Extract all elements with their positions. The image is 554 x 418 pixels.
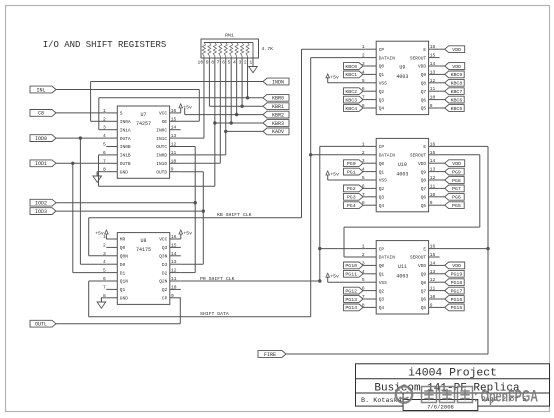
- wire KBR3 row to U7 IN1B: [99, 58, 264, 186]
- svg-text:16: 16: [430, 141, 436, 147]
- net label IOD2: [30, 199, 56, 206]
- svg-text:E: E: [423, 144, 426, 150]
- svg-text:Q1N: Q1N: [120, 279, 128, 285]
- svg-text:IOD3: IOD3: [35, 209, 47, 215]
- svg-text:E: E: [423, 246, 426, 252]
- svg-text:PG8: PG8: [452, 178, 461, 184]
- svg-text:PG1: PG1: [347, 169, 356, 175]
- net label PG14: [344, 304, 366, 311]
- svg-text:PG13: PG13: [345, 297, 357, 303]
- svg-text:14: 14: [171, 251, 177, 257]
- svg-text:KBC4: KBC4: [345, 106, 357, 112]
- svg-text:14: 14: [171, 125, 177, 131]
- svg-text:VDD: VDD: [452, 263, 461, 269]
- title block: [356, 364, 550, 411]
- +5V at U7 VCC: [179, 104, 192, 113]
- svg-text:Q0N: Q0N: [120, 254, 128, 260]
- svg-text:D3: D3: [162, 262, 168, 268]
- svg-text:Q4: Q4: [379, 305, 385, 311]
- svg-text:VDD: VDD: [452, 64, 461, 70]
- svg-text:IN1C: IN1C: [156, 136, 167, 142]
- net label KBC5: [440, 105, 465, 112]
- net label PG15: [440, 304, 465, 311]
- svg-text:OUTB: OUTB: [120, 161, 131, 167]
- svg-text:Q0: Q0: [379, 161, 385, 167]
- svg-text:12: 12: [430, 175, 436, 181]
- wire C8 to U7 S: [56, 112, 106, 114]
- svg-text:7: 7: [217, 60, 220, 66]
- svg-text:IN1A: IN1A: [120, 127, 131, 133]
- svg-text:IOD1: IOD1: [35, 161, 47, 167]
- svg-text:2: 2: [244, 60, 247, 66]
- wire KADV row to U7 IN0D: [181, 58, 263, 155]
- svg-text:4.7K: 4.7K: [262, 46, 274, 52]
- wire OUTL to U8 CP: [56, 298, 180, 324]
- wire KBR0 row: [99, 98, 263, 130]
- svg-text:9: 9: [430, 103, 433, 109]
- svg-text:11: 11: [430, 86, 436, 92]
- svg-text:KBC1: KBC1: [345, 72, 357, 78]
- net label KBC7: [440, 88, 465, 95]
- IC U10 4003 shift register: [362, 138, 440, 211]
- svg-text:15: 15: [171, 242, 177, 248]
- svg-text:DATAIN: DATAIN: [379, 153, 396, 159]
- svg-text:10: 10: [430, 192, 436, 198]
- wire KB SHIFT CLK net: [89, 49, 366, 256]
- IC U11 4003 shift register: [362, 241, 440, 314]
- svg-text:OE: OE: [162, 119, 168, 125]
- svg-text:OUTA: OUTA: [120, 136, 131, 142]
- net label PG11: [344, 270, 366, 277]
- svg-text:VSS: VSS: [379, 81, 387, 87]
- net label PG19: [440, 270, 465, 277]
- svg-text:VCC: VCC: [159, 111, 167, 117]
- svg-text:PG3: PG3: [347, 195, 356, 201]
- svg-text:DATAIN: DATAIN: [379, 55, 396, 61]
- wire U10 SEROUT to U11 DATAIN: [344, 155, 480, 257]
- svg-text:: OpenFPGA: : OpenFPGA: [474, 388, 538, 406]
- svg-text:Q7: Q7: [421, 186, 427, 192]
- svg-text:13: 13: [171, 259, 177, 265]
- svg-text:CP: CP: [379, 246, 385, 252]
- svg-text:OUTC: OUTC: [156, 144, 167, 150]
- svg-text:9: 9: [171, 293, 174, 299]
- svg-text:RN1: RN1: [225, 33, 234, 39]
- svg-text:IN1B: IN1B: [120, 153, 131, 159]
- net label IOD1: [30, 160, 56, 167]
- svg-text:Q3N: Q3N: [159, 254, 167, 260]
- svg-text:6: 6: [222, 60, 225, 66]
- svg-text:KBC3: KBC3: [345, 97, 357, 103]
- svg-text:5: 5: [228, 60, 231, 66]
- +5V at U10 VSS: [326, 171, 365, 180]
- svg-text:+5v: +5v: [330, 274, 339, 280]
- net label KBC3: [344, 96, 366, 103]
- svg-text:12: 12: [171, 268, 177, 274]
- net label PG7: [440, 185, 465, 192]
- svg-text:PG15: PG15: [451, 305, 463, 311]
- svg-text:13: 13: [171, 133, 177, 139]
- svg-text:U7: U7: [140, 112, 146, 118]
- svg-text:+5v: +5v: [95, 231, 104, 237]
- svg-text:7: 7: [103, 284, 106, 290]
- svg-text:PG12: PG12: [345, 288, 357, 294]
- IC U8 74175 quad flip-flop: [103, 233, 181, 305]
- net label PG12: [344, 287, 366, 294]
- svg-text:U11: U11: [398, 264, 407, 270]
- net label PG3: [344, 193, 366, 200]
- svg-text:16: 16: [430, 244, 436, 250]
- svg-text:4003: 4003: [396, 74, 408, 80]
- net label C8: [30, 110, 56, 117]
- text PR SHIFT CLK: [200, 276, 235, 282]
- svg-text:FIRE: FIRE: [264, 352, 276, 358]
- svg-text:GND: GND: [120, 296, 128, 302]
- svg-text:VDD: VDD: [452, 161, 461, 167]
- net label PG9: [440, 168, 465, 175]
- net label VDD at U9 VDD: [440, 63, 465, 70]
- svg-text:+5v: +5v: [330, 74, 339, 80]
- net label KBR0: [263, 94, 289, 101]
- wire RN1 pin7 to U7 IN1D: [181, 58, 221, 163]
- svg-text:KB SHIFT CLK: KB SHIFT CLK: [217, 212, 252, 218]
- net label KBC8: [440, 79, 465, 86]
- net label PG10: [344, 262, 366, 269]
- svg-text:KBC5: KBC5: [451, 106, 463, 112]
- ground at U8 GND pin: [97, 298, 106, 309]
- svg-text:Q4: Q4: [379, 203, 385, 209]
- svg-text:74257: 74257: [136, 121, 151, 127]
- svg-text:15: 15: [430, 53, 436, 59]
- svg-text:Q2: Q2: [162, 287, 168, 293]
- svg-text:VSS: VSS: [379, 178, 387, 184]
- svg-text:+5v: +5v: [183, 231, 192, 237]
- net label PG16: [440, 296, 465, 303]
- svg-text:U9: U9: [399, 65, 405, 71]
- svg-text:D1: D1: [120, 270, 126, 276]
- svg-text:KBC8: KBC8: [451, 81, 463, 87]
- svg-text:PG18: PG18: [451, 280, 463, 286]
- svg-text:Q3: Q3: [379, 297, 385, 303]
- svg-text:9: 9: [430, 302, 433, 308]
- wire KBR1 row: [209, 58, 263, 106]
- svg-text:S: S: [120, 111, 123, 117]
- svg-text:10: 10: [171, 284, 177, 290]
- net label PG6: [440, 193, 465, 200]
- svg-text:OUTD: OUTD: [156, 169, 167, 175]
- wire SHIFT DATA net: [89, 58, 366, 317]
- svg-text:KBC6: KBC6: [451, 97, 463, 103]
- svg-text:Q6: Q6: [421, 97, 427, 103]
- svg-text:Q8: Q8: [421, 81, 427, 87]
- svg-text:Q4: Q4: [379, 106, 385, 112]
- svg-text:IN0C: IN0C: [156, 127, 167, 133]
- svg-text:PG10: PG10: [345, 263, 357, 269]
- svg-text:9: 9: [171, 167, 174, 173]
- svg-text:I/O AND SHIFT REGISTERS: I/O AND SHIFT REGISTERS: [43, 39, 167, 50]
- svg-text:VSS: VSS: [379, 280, 387, 286]
- svg-text:11: 11: [171, 276, 177, 282]
- svg-text:KBC2: KBC2: [345, 89, 357, 95]
- svg-text:KBR1: KBR1: [272, 104, 284, 110]
- svg-text:VCC: VCC: [159, 237, 167, 243]
- svg-text:Q1: Q1: [379, 272, 385, 278]
- svg-text:VDD: VDD: [452, 47, 461, 53]
- svg-text:PG6: PG6: [452, 195, 461, 201]
- wire KBR2 row: [185, 108, 263, 115]
- ground at U7 GND pin: [93, 172, 106, 183]
- svg-text:MR: MR: [120, 237, 126, 243]
- svg-text:13: 13: [430, 69, 436, 75]
- svg-text:IN0D: IN0D: [156, 153, 167, 159]
- IC U9 4003 shift register: [362, 41, 440, 114]
- svg-text:4003: 4003: [396, 274, 408, 280]
- svg-text:16: 16: [171, 108, 177, 114]
- svg-text:9: 9: [206, 60, 209, 66]
- svg-text:74175: 74175: [136, 247, 151, 253]
- svg-text:GND: GND: [120, 169, 128, 175]
- svg-text:Q7: Q7: [421, 89, 427, 95]
- svg-text:IN1D: IN1D: [156, 161, 167, 167]
- svg-text:Q8: Q8: [421, 280, 427, 286]
- svg-text:Q0: Q0: [379, 263, 385, 269]
- svg-text:Q5: Q5: [421, 305, 427, 311]
- junction KBR3/RN1: [230, 58, 233, 125]
- svg-text:8: 8: [211, 60, 214, 66]
- net label KBC4: [344, 105, 366, 112]
- svg-text:PG2: PG2: [347, 186, 356, 192]
- text KB SHIFT CLK: [217, 212, 252, 218]
- svg-text:KBC9: KBC9: [451, 72, 463, 78]
- net label FIRE: [258, 351, 286, 358]
- net label VDD at U9 E: [440, 46, 465, 53]
- net label OUTL: [30, 320, 56, 327]
- net label KBC0: [344, 63, 366, 70]
- net label INL: [30, 86, 56, 93]
- wire IOD3 to U7 OUTD and U8 D3: [56, 172, 205, 265]
- svg-text:15: 15: [430, 150, 436, 156]
- net label KADV: [263, 128, 289, 135]
- watermark text: [422, 387, 473, 403]
- net label VDD at U11: [440, 262, 465, 269]
- svg-text:16: 16: [171, 234, 177, 240]
- svg-text:5: 5: [103, 142, 106, 148]
- svg-text:Q9: Q9: [421, 272, 427, 278]
- net label INDN: [263, 78, 289, 85]
- svg-text:Q9: Q9: [421, 72, 427, 78]
- wire IOD0 to U7 OUTA and U8 D1: [56, 136, 106, 264]
- svg-text:10: 10: [430, 294, 436, 300]
- wire INDN to U7 IN0A: [91, 82, 263, 122]
- svg-text:11: 11: [430, 183, 436, 189]
- svg-text:12: 12: [171, 142, 177, 148]
- net label PG18: [440, 279, 465, 286]
- svg-text:3: 3: [238, 60, 241, 66]
- svg-text:OUTL: OUTL: [35, 322, 47, 328]
- svg-text:11: 11: [171, 150, 177, 156]
- net label KBR2: [263, 111, 289, 118]
- svg-text:PG7: PG7: [452, 186, 461, 192]
- wire RN1 pin10 to U7 IN1C: [181, 58, 204, 138]
- svg-text:U8: U8: [141, 238, 147, 244]
- net label PG17: [440, 287, 465, 294]
- svg-text:KBR0: KBR0: [272, 96, 284, 102]
- svg-text:Q0: Q0: [379, 64, 385, 70]
- svg-text:PG4: PG4: [347, 203, 356, 209]
- svg-text:PG14: PG14: [345, 305, 357, 311]
- net label VDD at U10: [440, 160, 465, 167]
- svg-text:DATAIN: DATAIN: [379, 255, 396, 261]
- svg-text:Q3: Q3: [162, 245, 168, 251]
- svg-text:13: 13: [430, 269, 436, 275]
- svg-text:KADV: KADV: [272, 129, 284, 135]
- svg-text:D2: D2: [162, 270, 168, 276]
- svg-text:PG19: PG19: [451, 272, 463, 278]
- net label KBC2: [344, 88, 366, 95]
- svg-text:Q2: Q2: [379, 288, 385, 294]
- svg-text:E: E: [423, 47, 426, 53]
- svg-text:VDD: VDD: [418, 161, 426, 167]
- svg-text:14: 14: [430, 158, 436, 164]
- svg-text:CP: CP: [379, 47, 385, 53]
- svg-text:13: 13: [430, 167, 436, 173]
- net label IOD3: [30, 208, 56, 215]
- svg-text:PG5: PG5: [452, 203, 461, 209]
- svg-text:KBC0: KBC0: [345, 64, 357, 70]
- svg-text:KBR2: KBR2: [272, 112, 284, 118]
- svg-text:U10: U10: [398, 162, 407, 168]
- svg-text:Q1: Q1: [120, 287, 126, 293]
- svg-text:9: 9: [430, 200, 433, 206]
- svg-text:SEROUT: SEROUT: [410, 153, 427, 159]
- watermark logo circle: [396, 386, 412, 402]
- ground at RN1 pin 1: [249, 58, 258, 73]
- svg-text:15: 15: [430, 252, 436, 258]
- wire PR SHIFT CLK net: [181, 146, 365, 282]
- wire IOD2 to U7 OUTC and U8 D2: [56, 147, 197, 273]
- svg-text:PG0: PG0: [347, 161, 356, 167]
- wire IOD1 to U7 OUTB and U8 D0: [56, 162, 106, 273]
- svg-text:CP: CP: [162, 296, 168, 302]
- svg-text:4: 4: [233, 60, 236, 66]
- svg-text:Q7: Q7: [421, 288, 427, 294]
- svg-text:Q1: Q1: [379, 169, 385, 175]
- svg-text:PG17: PG17: [451, 288, 463, 294]
- svg-text:IOD0: IOD0: [35, 136, 47, 142]
- +5V at U8 MR: [95, 230, 108, 239]
- svg-text:+5v: +5v: [330, 172, 339, 178]
- text SHIFT DATA: [200, 311, 229, 317]
- svg-text:10: 10: [198, 60, 204, 66]
- svg-text:PG11: PG11: [345, 272, 357, 278]
- +5V at U8 VCC: [179, 230, 192, 239]
- junction KBR2/RN1: [235, 58, 238, 116]
- svg-text:KBR3: KBR3: [272, 121, 284, 127]
- svg-text:Q3: Q3: [379, 195, 385, 201]
- +5V at U11 VSS: [326, 273, 365, 282]
- svg-text:VDD: VDD: [418, 64, 426, 70]
- resistor network RN1: [198, 33, 274, 66]
- svg-text:Q2: Q2: [379, 186, 385, 192]
- svg-text:PG16: PG16: [451, 297, 463, 303]
- svg-text:Q6: Q6: [421, 297, 427, 303]
- svg-text:12: 12: [430, 78, 436, 84]
- net label KBC9: [440, 71, 465, 78]
- svg-text:i4004 Project: i4004 Project: [408, 368, 497, 380]
- svg-text:C8: C8: [38, 111, 44, 117]
- wire INL to U7 OE: [56, 90, 199, 122]
- net label PG4: [344, 202, 366, 209]
- net label PG5: [440, 202, 465, 209]
- net label KBC6: [440, 96, 465, 103]
- net label PG13: [344, 296, 366, 303]
- svg-text:2: 2: [103, 242, 106, 248]
- svg-text:14: 14: [430, 260, 436, 266]
- svg-text:Q8: Q8: [421, 178, 427, 184]
- svg-text:IOD2: IOD2: [35, 201, 47, 207]
- svg-text:Q3: Q3: [379, 97, 385, 103]
- wire FIRE to U10/U11 E: [286, 146, 490, 354]
- svg-text:Q1: Q1: [379, 72, 385, 78]
- svg-text:SEROUT: SEROUT: [410, 55, 427, 61]
- svg-text:4003: 4003: [396, 171, 408, 177]
- svg-text:Q0: Q0: [120, 245, 126, 251]
- junction KBR0/RN1: [246, 58, 249, 100]
- svg-text:15: 15: [171, 116, 177, 122]
- svg-text:12: 12: [430, 277, 436, 283]
- svg-text:Q5: Q5: [421, 203, 427, 209]
- net label PG1: [344, 168, 366, 175]
- net label KBC1: [344, 71, 366, 78]
- svg-text:Q9: Q9: [421, 169, 427, 175]
- svg-text:Q2N: Q2N: [159, 279, 167, 285]
- svg-text:INL: INL: [36, 87, 45, 93]
- svg-text:PR SHIFT CLK: PR SHIFT CLK: [200, 276, 235, 282]
- svg-text:1: 1: [249, 60, 252, 66]
- svg-text:IN0B: IN0B: [120, 144, 131, 150]
- svg-text:7/6/2008: 7/6/2008: [427, 403, 454, 410]
- svg-text:Q5: Q5: [421, 106, 427, 112]
- svg-text:11: 11: [430, 286, 436, 292]
- svg-text:Q6: Q6: [421, 195, 427, 201]
- svg-text:SHIFT DATA: SHIFT DATA: [200, 311, 229, 317]
- +5V at U9 VSS: [326, 74, 365, 83]
- svg-text:14: 14: [430, 61, 436, 67]
- svg-text:D0: D0: [120, 262, 126, 268]
- net label PG8: [440, 177, 465, 184]
- IC U7 74257 multiplexer: [103, 106, 181, 178]
- svg-text:16: 16: [430, 44, 436, 50]
- net label IOD0: [30, 135, 56, 142]
- net label KBR3: [263, 120, 289, 127]
- svg-text:IN0A: IN0A: [120, 119, 131, 125]
- svg-text:INDN: INDN: [272, 79, 284, 85]
- svg-text:SEROUT: SEROUT: [410, 255, 427, 261]
- svg-text:Q2: Q2: [379, 89, 385, 95]
- svg-text:KBC7: KBC7: [451, 89, 463, 95]
- svg-text:10: 10: [171, 158, 177, 164]
- net label PG2: [344, 185, 366, 192]
- svg-text:PG9: PG9: [452, 169, 461, 175]
- net label PG0: [344, 160, 366, 167]
- svg-text:10: 10: [430, 95, 436, 101]
- net label KBR1: [263, 103, 289, 110]
- svg-text:VDD: VDD: [418, 263, 426, 269]
- svg-text:CP: CP: [379, 144, 385, 150]
- junction KBR1/RN1: [240, 58, 243, 108]
